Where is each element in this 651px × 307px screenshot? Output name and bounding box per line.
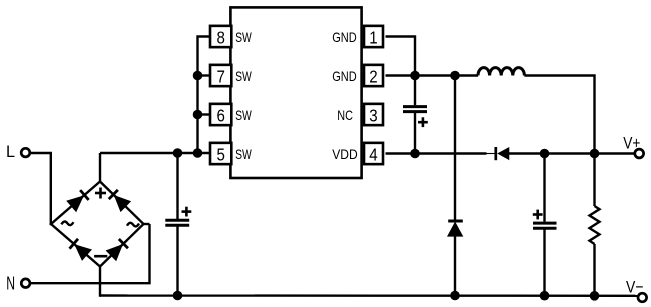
terminal N circle bbox=[21, 279, 30, 288]
wire: bridge + (top corner) up to DC bus bbox=[99, 153, 101, 182]
junction node: bus at pin 6 bbox=[193, 110, 203, 120]
wire: bridge - (bottom corner) down to negative rail bbox=[100, 267, 101, 296]
wire: pin 1 to pin 2 net bbox=[386, 37, 416, 76]
diode D6 bottom lead bbox=[454, 236, 456, 296]
svg-text:1: 1 bbox=[369, 28, 377, 48]
bridge diode D3 (- to left AC) bbox=[70, 239, 91, 260]
wire: bridge right corner stub bbox=[144, 223, 150, 225]
wire: stub to pin 6 bbox=[198, 113, 211, 115]
pin box 7 bbox=[210, 65, 231, 87]
wire: bottom negative rail bbox=[100, 294, 638, 297]
svg-text:5: 5 bbox=[216, 145, 224, 165]
junction node: bus at pin 7 bbox=[193, 71, 203, 81]
wire: pin 2 GND line bbox=[386, 74, 456, 76]
wire: L terminal to bridge left corner bbox=[31, 153, 51, 224]
junction node: R1 bottom on negative rail bbox=[590, 291, 600, 301]
pin box 2 bbox=[364, 65, 383, 87]
capacitor C3 + mark bbox=[533, 210, 543, 220]
junction node: D6 on negative rail bbox=[450, 291, 460, 301]
terminal V- circle bbox=[638, 293, 647, 302]
svg-text:V+: V+ bbox=[623, 133, 640, 152]
bridge diode D2 (right AC to +) bbox=[109, 190, 130, 211]
resistor R1 bottom lead bbox=[593, 244, 595, 296]
svg-text:NC: NC bbox=[337, 107, 353, 123]
wire: thin segment before D5 bbox=[486, 153, 495, 155]
junction node: C3 bottom on negative rail bbox=[540, 291, 550, 301]
capacitor C3 bottom lead bbox=[543, 229, 545, 295]
terminal V+ circle bbox=[635, 149, 644, 158]
bridge + polarity mark bbox=[95, 188, 106, 199]
svg-text:L: L bbox=[6, 142, 15, 161]
capacitor C2 bottom lead bbox=[414, 113, 416, 154]
capacitor C1 plates bbox=[165, 220, 189, 225]
pin box 5 bbox=[210, 143, 231, 165]
capacitor C3 plates bbox=[533, 223, 557, 228]
wire: to inductor bbox=[455, 74, 478, 76]
diode D6 triangle bbox=[448, 223, 462, 236]
bridge ~ AC mark left bbox=[61, 221, 73, 225]
junction node: C1 top on DC+ bus bbox=[173, 148, 183, 158]
junction node: bus at pin 5 / DC+ bbox=[193, 148, 203, 158]
svg-text:6: 6 bbox=[216, 106, 224, 126]
wire: stub to pin 7 bbox=[198, 74, 211, 76]
svg-text:GND: GND bbox=[332, 29, 357, 45]
capacitor C2 + mark bbox=[418, 117, 428, 127]
svg-text:VDD: VDD bbox=[332, 146, 358, 162]
svg-text:GND: GND bbox=[332, 68, 357, 84]
junction node: C1 bottom on negative rail bbox=[173, 291, 183, 301]
junction node: pin1/pin2 net bbox=[410, 71, 420, 81]
pin box 8 bbox=[210, 26, 231, 48]
wire: pin2 line to inductor, junction bbox=[450, 71, 460, 81]
inductor L1 bbox=[478, 68, 524, 76]
resistor R1 zigzag bbox=[590, 206, 600, 244]
pin box 1 bbox=[364, 26, 383, 48]
svg-text:SW: SW bbox=[235, 107, 252, 123]
svg-text:4: 4 bbox=[369, 145, 378, 165]
svg-text:SW: SW bbox=[235, 29, 252, 45]
pin box 3 bbox=[364, 104, 383, 126]
terminal L circle bbox=[21, 148, 30, 157]
svg-text:7: 7 bbox=[216, 67, 224, 87]
resistor R1 top lead bbox=[593, 154, 595, 207]
capacitor C1 + mark bbox=[182, 207, 192, 217]
wire: DC+ bus to pin 5 bbox=[100, 152, 210, 154]
svg-text:V−: V− bbox=[626, 278, 644, 297]
bridge ~ AC mark right bbox=[127, 223, 139, 227]
capacitor C2 (bypass) top lead bbox=[414, 76, 416, 106]
wire: D5 anode to V+ bbox=[509, 152, 634, 154]
bridge diode D1 (left AC to +) bbox=[67, 190, 88, 211]
capacitor C3 (output) top lead bbox=[543, 154, 545, 222]
svg-text:3: 3 bbox=[369, 106, 377, 126]
svg-text:N: N bbox=[6, 273, 15, 293]
svg-text:SW: SW bbox=[235, 146, 252, 162]
pin box 6 bbox=[210, 104, 231, 126]
bridge diode D4 (- to right AC) bbox=[107, 239, 128, 260]
diode D6 (freewheel) anode lead from pin2 net bbox=[454, 76, 456, 223]
svg-text:SW: SW bbox=[235, 68, 252, 84]
diode D6 cathode bar bbox=[448, 220, 463, 223]
op IC U1 body bbox=[230, 7, 361, 178]
bridge - polarity mark bbox=[94, 255, 107, 258]
wire: VDD pin 4 line bbox=[386, 152, 487, 154]
capacitor C1 bottom lead bbox=[176, 226, 178, 295]
svg-text:8: 8 bbox=[216, 28, 224, 48]
wire: inductor to output node bbox=[524, 76, 594, 154]
junction node: output cap top bbox=[540, 149, 550, 159]
wire: SW pins bus (pins 5-8) bbox=[198, 37, 211, 154]
junction node: inductor/resistor at V+ line bbox=[590, 149, 600, 159]
capacitor C1 (input bulk) top lead bbox=[176, 153, 178, 219]
wire: N terminal to bridge right corner riser bbox=[31, 224, 150, 283]
diode D5 cathode bar bbox=[494, 147, 497, 160]
bridge rectifier diamond outline bbox=[51, 182, 144, 267]
svg-text:2: 2 bbox=[369, 67, 377, 87]
junction node: C2 bottom on VDD line bbox=[410, 149, 420, 159]
pin box 4 bbox=[364, 143, 383, 165]
diode D5 triangle (points left to VDD) bbox=[497, 147, 509, 160]
capacitor C2 plates bbox=[403, 107, 427, 112]
